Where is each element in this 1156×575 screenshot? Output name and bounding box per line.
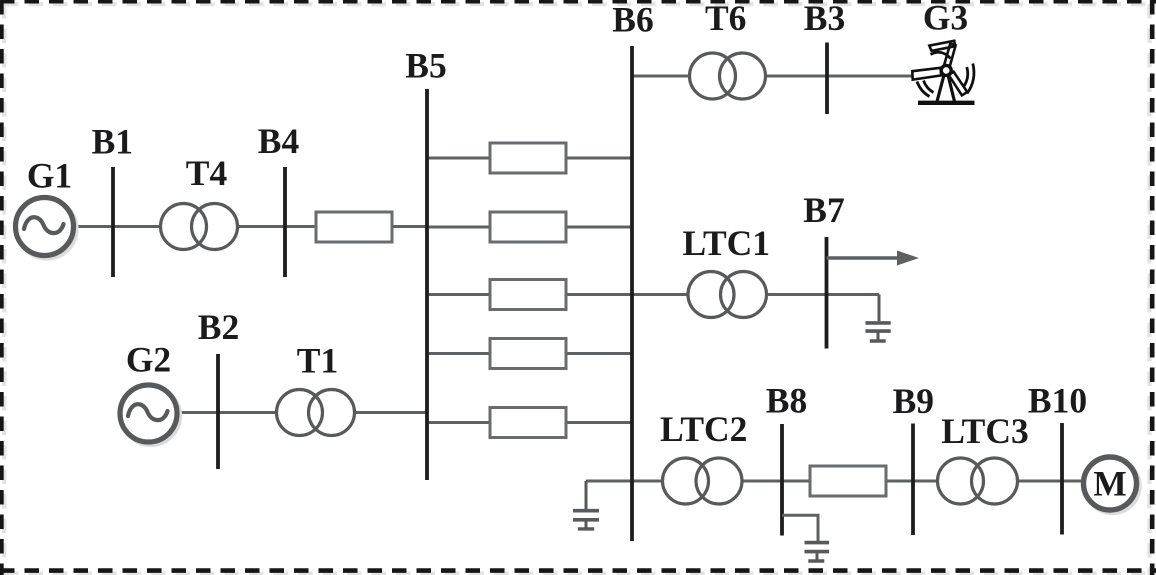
transformer T6 [690,53,766,99]
svg-text:LTC1: LTC1 [683,223,771,263]
hub [941,65,951,75]
bus B9 [911,424,915,536]
tower [937,75,944,102]
arcs near right blade [967,64,974,94]
bus B5 [425,89,429,480]
generator G1 [16,198,77,259]
svg-text:G3: G3 [923,0,968,38]
svg-text:T1: T1 [297,341,338,381]
motor M [1084,457,1140,513]
impedance box row2 [490,212,566,242]
svg-text:LTC3: LTC3 [941,411,1029,451]
bus B3 [825,43,829,115]
generator G2 [120,385,180,445]
wire row4 B5-B6 [427,352,632,355]
bus B6 [630,46,634,541]
blade up [944,44,956,69]
base [918,101,975,105]
wire row5 B5-B6 [427,421,632,424]
arcs near left blade [917,82,930,97]
svg-text:T4: T4 [186,153,228,193]
svg-text:B2: B2 [198,307,239,347]
load arrow at B7 [827,251,920,266]
transformer LTC2 [663,458,743,504]
transformer T4 [161,204,238,250]
wind generator G3 [912,41,974,103]
bus B1 [111,167,115,277]
impedance box row4 [490,339,566,369]
shunt capacitor at B8 [805,543,830,561]
svg-text:B1: B1 [92,122,133,162]
wire G2 to B5 (row T1 y=412.5) [176,411,427,414]
shunt capacitor at B7 [866,295,891,342]
wire row2 B5-B6 [427,226,632,229]
shunt capacitor left of B6 [573,481,599,529]
blade top bent [929,41,955,51]
transformer T1 [277,390,355,436]
svg-text:G1: G1 [27,156,72,196]
blade lower-right [949,72,968,96]
svg-text:T6: T6 [705,0,746,38]
wire G1 to B5 (row A y=226.5) [71,225,427,228]
transformer LTC1 [688,272,767,318]
wire B6-T6-B3-G3 (y=76) [632,75,913,78]
svg-text:B5: B5 [405,46,446,86]
wire row1 B5-B6 [427,157,632,160]
svg-text:B10: B10 [1028,381,1087,421]
svg-text:B9: B9 [893,381,934,421]
bus B8 [780,424,784,536]
svg-text:G2: G2 [126,340,171,380]
transformer LTC3 [938,458,1018,504]
wire LTC2 row (y=481) [586,480,1084,483]
impedance box row3 [490,280,566,310]
impedance box row1 [490,143,566,173]
arc near top blade [931,52,951,58]
svg-text:B8: B8 [766,381,807,421]
impedance box B8-B9 [810,466,886,496]
bus B10 [1060,423,1064,535]
bus B4 [283,167,287,277]
svg-text:B3: B3 [804,0,845,38]
bus B2 [216,354,220,469]
impedance box on G1 row [316,212,392,242]
branch wire B8 to shunt capacitor [782,515,818,541]
svg-text:B7: B7 [803,190,844,230]
svg-text:M: M [1093,464,1127,504]
impedance box row5 [490,408,566,438]
svg-text:B6: B6 [612,0,653,40]
wire row3 B5-B6-LTC1-B7 [427,293,879,296]
blade left [912,68,941,80]
bus B7 [825,237,829,349]
svg-text:LTC2: LTC2 [660,409,748,449]
svg-text:B4: B4 [258,121,300,161]
